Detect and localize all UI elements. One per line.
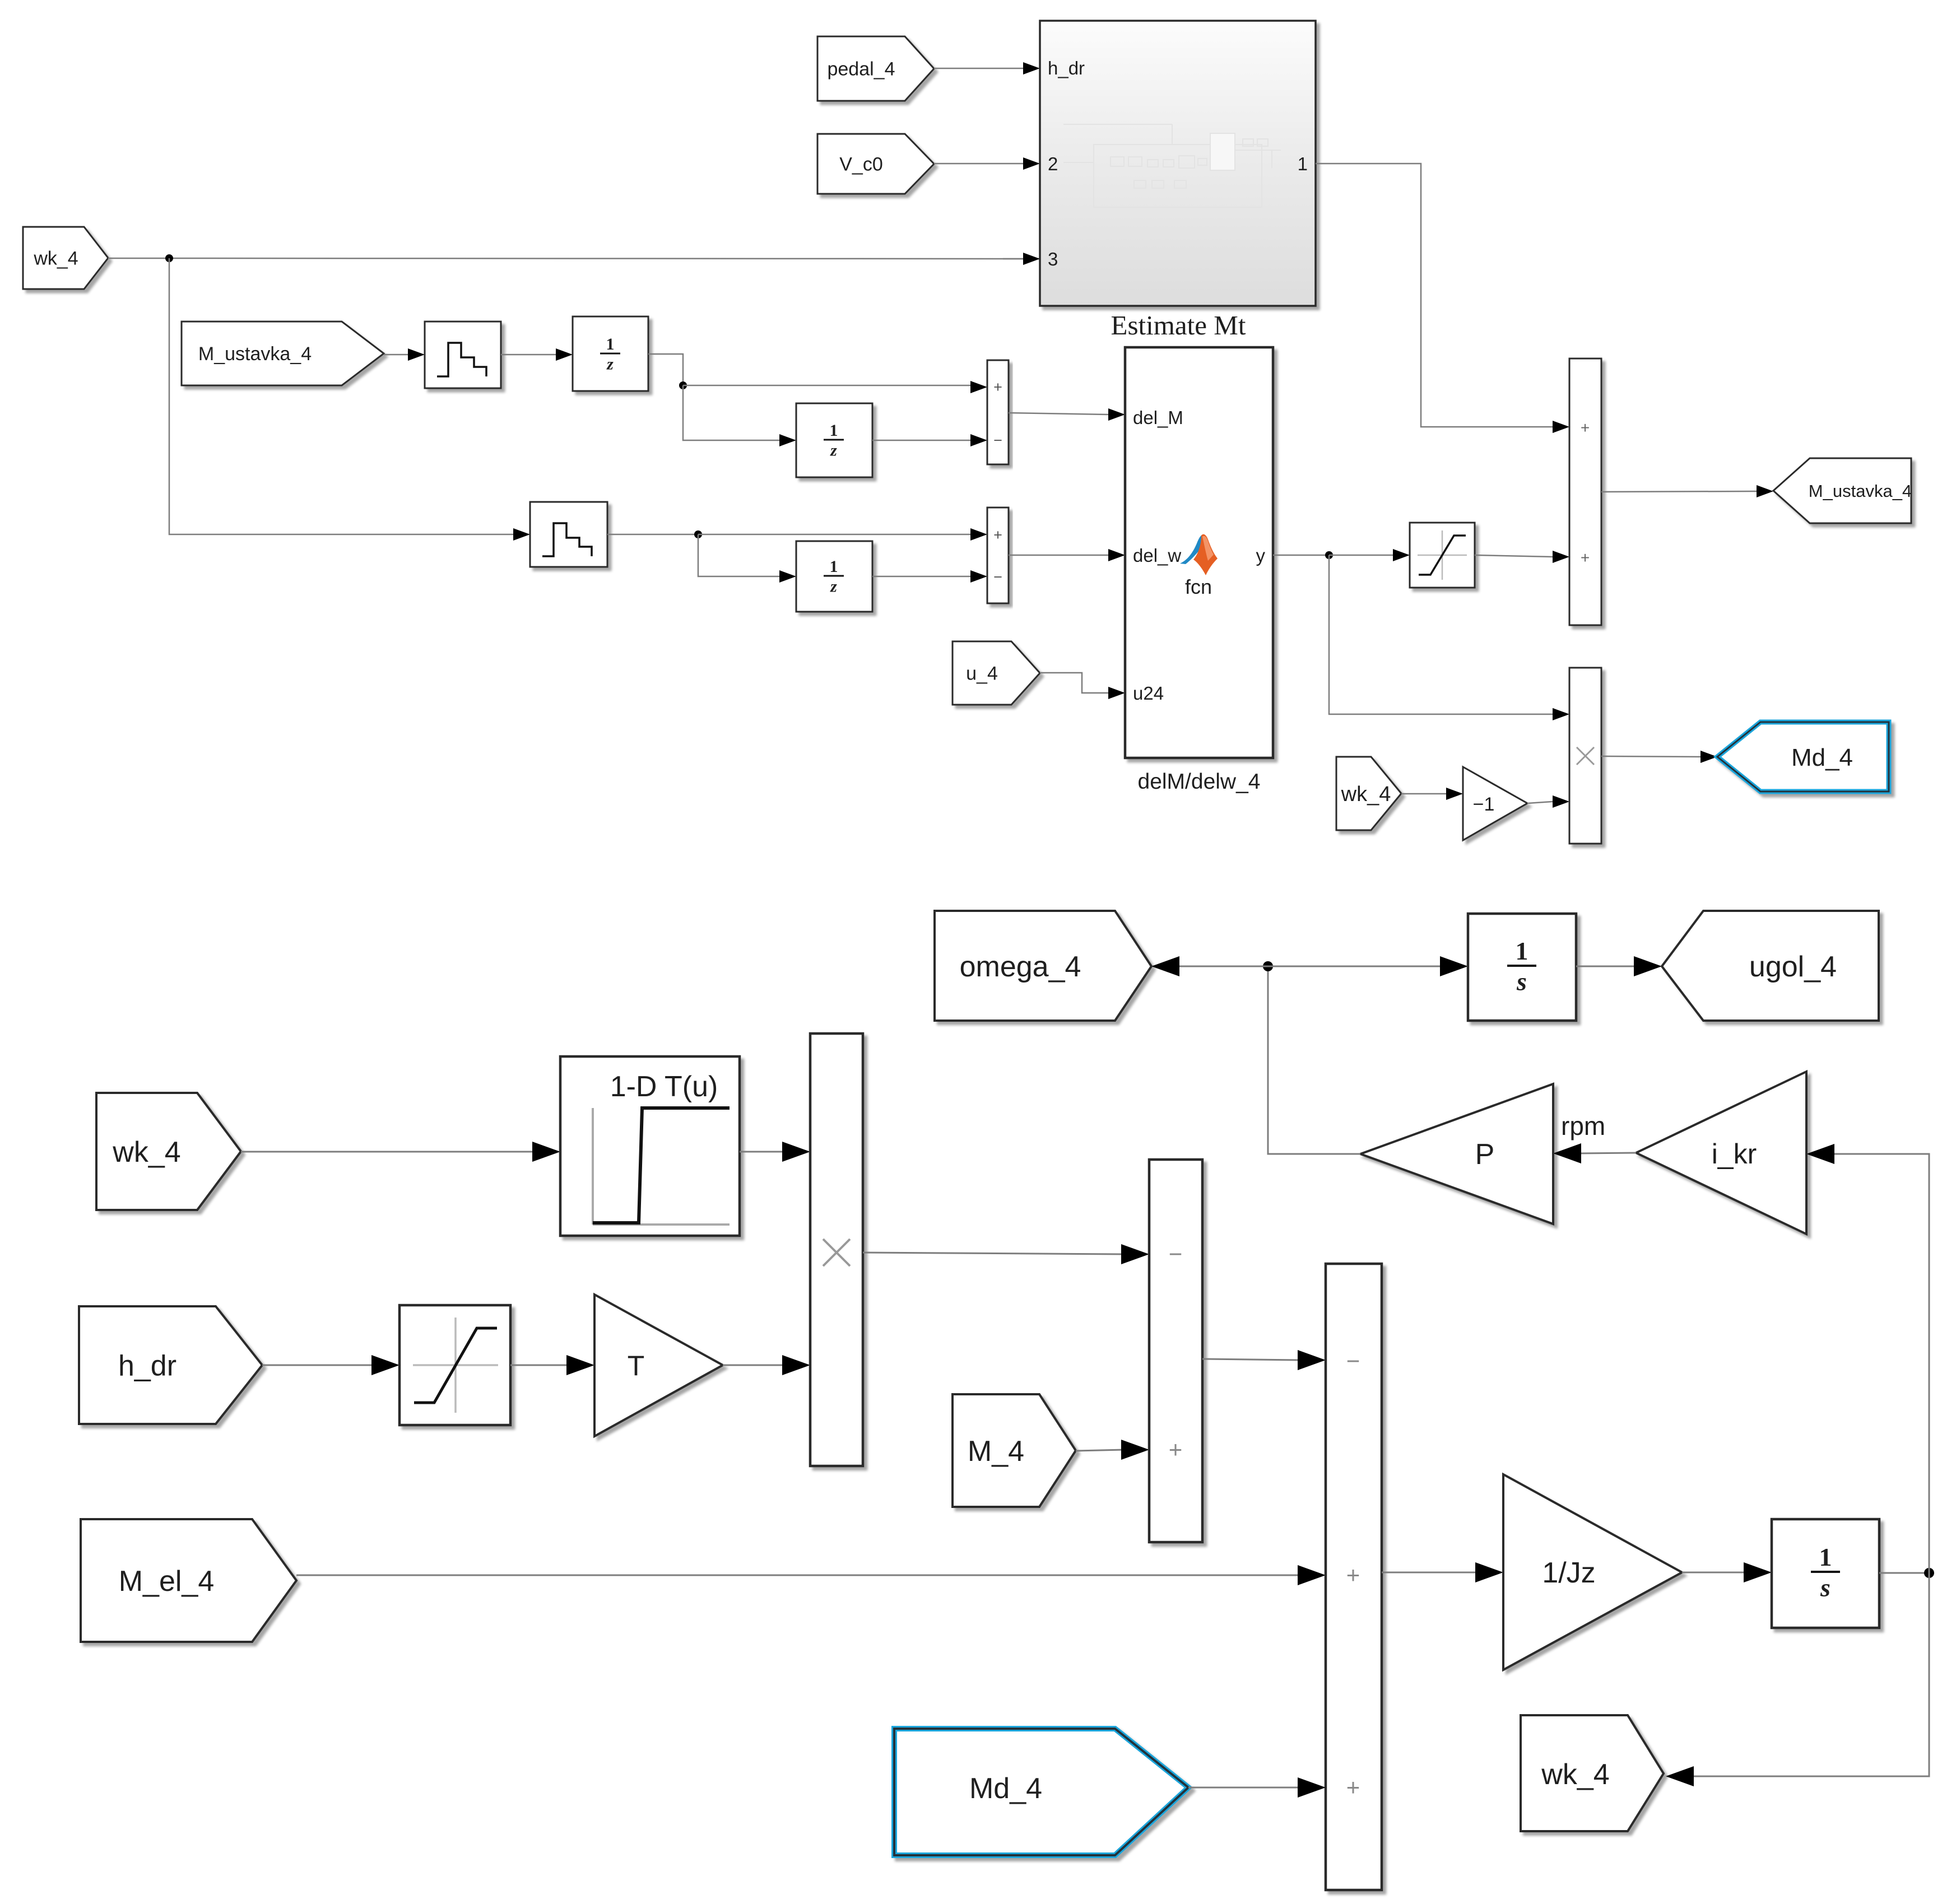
input port wk_4 top-left [23,227,108,289]
gain i_kr [1636,1072,1806,1234]
svg-text:+: + [1169,1436,1183,1463]
wire M_4 to sum S4 plus [1076,1450,1125,1451]
svg-text:3: 3 [1048,249,1058,269]
wire y output to junction [1273,555,1329,556]
svg-text:del_w: del_w [1133,545,1181,566]
lookup table 1-D T(u) [560,1056,740,1236]
wire junction to integrator 1/s top [1268,966,1443,967]
node Q2 output junction [694,530,702,538]
svg-text:+: + [993,379,1002,395]
sum S4 [1149,1160,1202,1542]
output port M_ustavka_4 [1773,458,1911,523]
svg-text:i_kr: i_kr [1712,1138,1757,1170]
wire S1 to del_M input [1009,413,1108,415]
gain -1 [1463,767,1527,840]
unit delay D2 1/z [796,403,872,477]
svg-text:u24: u24 [1133,683,1164,704]
svg-text:−1: −1 [1473,794,1495,815]
wire feedback down to output wk_4 [1690,1573,1929,1776]
wire Md_4 to sum S5 lower plus [1188,1787,1301,1789]
input port M_el_4 [81,1519,296,1642]
svg-text:−: − [1346,1348,1360,1374]
svg-text:z: z [830,441,837,460]
svg-text:1: 1 [606,335,615,353]
node wk_4 branch junction [165,254,173,262]
svg-text:del_M: del_M [1133,407,1183,428]
svg-text:wk_4: wk_4 [1541,1758,1609,1791]
sum S1 [987,360,1009,464]
wire 1/s to output ugol_4 [1576,966,1637,967]
input port pedal_4 [817,36,934,101]
node y output junction [1325,551,1333,559]
node feedback junction [1924,1568,1934,1578]
wire wk_4 to gain G-1 [1401,793,1446,795]
svg-text:rpm: rpm [1561,1111,1605,1140]
wire gain T to product PR2 lower input [723,1365,786,1366]
input port wk_4 mid-right [1336,757,1401,830]
svg-text:T: T [628,1350,645,1381]
svg-text:P: P [1475,1138,1495,1171]
svg-text:+: + [1581,549,1590,566]
output port Md_4 highlighted [1717,722,1889,792]
wire SAT2 to gain T [510,1365,570,1366]
wire wk_4 down to quantizer row 2 [169,258,513,534]
svg-text:2: 2 [1048,153,1058,174]
svg-text:M_el_4: M_el_4 [119,1565,215,1598]
wire u_4 to u24 input [1040,673,1108,693]
svg-text:1: 1 [830,421,838,440]
output port omega_4 [935,911,1151,1021]
input port M_4 [953,1394,1076,1507]
wire D1 output to junction [648,354,683,385]
output port wk_4 bottom-right [1521,1715,1664,1831]
svg-text:+: + [993,527,1002,543]
product PR2 [810,1034,863,1466]
svg-text:M_4: M_4 [968,1435,1024,1468]
gain P [1360,1084,1553,1224]
svg-text:wk_4: wk_4 [112,1136,180,1169]
svg-text:y: y [1256,545,1266,566]
subsystem Estimate Mt [1040,21,1316,306]
svg-text:fcn: fcn [1185,575,1212,598]
node omega junction [1263,961,1273,971]
wire P output to junction [1268,966,1360,1154]
input port h_dr [79,1306,262,1424]
svg-text:s: s [1820,1574,1830,1602]
svg-text:ugol_4: ugol_4 [1749,951,1837,983]
svg-text:1/Jz: 1/Jz [1542,1557,1595,1589]
svg-text:Md_4: Md_4 [969,1772,1042,1805]
output port ugol_4 [1662,911,1879,1021]
input port u_4 [953,641,1040,705]
node D1 output junction [679,381,687,389]
svg-text:−: − [1169,1241,1183,1267]
sum S2 [987,508,1009,603]
svg-text:M_ustavka_4: M_ustavka_4 [1809,481,1912,501]
PR1 multiply sign [1577,747,1594,765]
sum S5 [1326,1264,1382,1890]
unit delay D3 1/z [796,541,872,612]
wire junction down to unit delay D3 [698,534,779,576]
svg-text:u_4: u_4 [966,663,998,685]
wire junction down to unit delay D2 [683,385,779,440]
svg-text:1: 1 [1819,1543,1832,1571]
wire 1/s to feedback junction [1879,1572,1929,1574]
wire wk_4 to Estimate Mt port 3 [108,258,1040,259]
wire junction to output omega_4 [1176,966,1268,967]
saturation block SAT2 [399,1305,510,1425]
svg-text:+: + [1346,1562,1360,1588]
svg-text:omega_4: omega_4 [960,951,1081,983]
svg-text:h_dr: h_dr [1048,58,1085,78]
wire S3 to output M_ustavka_4 [1601,491,1757,492]
svg-text:Estimate Mt: Estimate Mt [1111,310,1246,341]
wire junction to sum S2 plus [698,534,970,536]
svg-text:1-D T(u): 1-D T(u) [610,1070,718,1103]
svg-text:pedal_4: pedal_4 [827,59,895,80]
output port Md_4 bottom highlighted [894,1729,1188,1855]
wire junction to saturation SAT1 [1329,555,1393,556]
svg-text:+: + [1581,419,1590,436]
wire PR2 to sum S4 minus [863,1253,1125,1254]
wire PR1 to output Md_4 [1601,756,1701,757]
wire junction to sum S1 plus [683,385,970,387]
MATLAB function block delM/delw_4 [1125,347,1273,758]
svg-text:1: 1 [1516,937,1528,965]
svg-text:wk_4: wk_4 [1341,783,1391,806]
saturation block SAT1 [1410,523,1475,588]
svg-text:1: 1 [830,557,838,576]
product PR1 [1569,668,1601,844]
input port wk_4 bottom-left [96,1093,241,1210]
wire S4 to sum S5 minus [1202,1359,1301,1360]
svg-text:delM/delw_4: delM/delw_4 [1138,770,1261,794]
wire h_dr to saturation SAT2 [262,1365,375,1366]
wire S5 to gain 1/Jz [1382,1572,1479,1574]
svg-text:+: + [1346,1774,1360,1800]
svg-text:1: 1 [1298,153,1308,174]
svg-text:−: − [993,569,1002,585]
wire wk_4 to lookup table [241,1151,536,1153]
svg-text:z: z [606,355,614,374]
wire V_c0 to Estimate Mt port 2 [934,163,1023,165]
sum S3 [1569,359,1601,625]
gain T [594,1295,723,1436]
wire M_el_4 to sum S5 middle plus [296,1575,1301,1576]
svg-text:Md_4: Md_4 [1791,744,1853,771]
wire feedback up to gain i_kr [1831,1154,1929,1573]
svg-text:V_c0: V_c0 [839,154,883,175]
Estimate Mt ghost content [1063,124,1281,207]
svg-text:−: − [993,432,1002,449]
gain 1/Jz [1503,1474,1682,1670]
wire D3 to sum S2 minus [872,576,970,578]
input port M_ustavka_4 [182,322,384,385]
svg-text:M_ustavka_4: M_ustavka_4 [198,343,312,365]
wire i_kr to gain P [1578,1153,1636,1153]
quantizer Q1 [425,322,501,388]
wire Q1 to unit delay D1 [501,354,556,356]
svg-text:s: s [1516,967,1527,996]
quantizer Q2 [530,502,607,567]
wire lookup to product PR2 upper input [740,1151,786,1153]
wire pedal_4 to Estimate Mt h_dr [934,68,1023,69]
wire Q2 output to junction [607,534,698,536]
PR2 multiply sign [823,1239,850,1266]
wire junction down to product PR1 [1329,555,1553,714]
wire S2 to del_w input [1009,555,1108,556]
wire Estimate Mt output 1 to sum S3 upper plus [1316,164,1553,427]
integrator 1/s top [1468,914,1576,1021]
unit delay D1 1/z [573,316,648,391]
wire gain -1 to product PR1 lower input [1527,802,1553,803]
MATLAB logo icon [1180,535,1206,564]
svg-text:wk_4: wk_4 [33,248,78,269]
svg-text:z: z [830,578,837,596]
wire 1/Jz to integrator 1/s [1682,1572,1747,1574]
svg-text:h_dr: h_dr [118,1350,176,1382]
integrator 1/s bottom [1772,1519,1879,1628]
wire SAT1 to sum S3 lower plus [1475,555,1553,557]
wire D2 to sum S1 minus [872,440,970,441]
wire M_ustavka_4 to quantizer Q1 [384,354,408,356]
input port V_c0 [817,134,934,194]
